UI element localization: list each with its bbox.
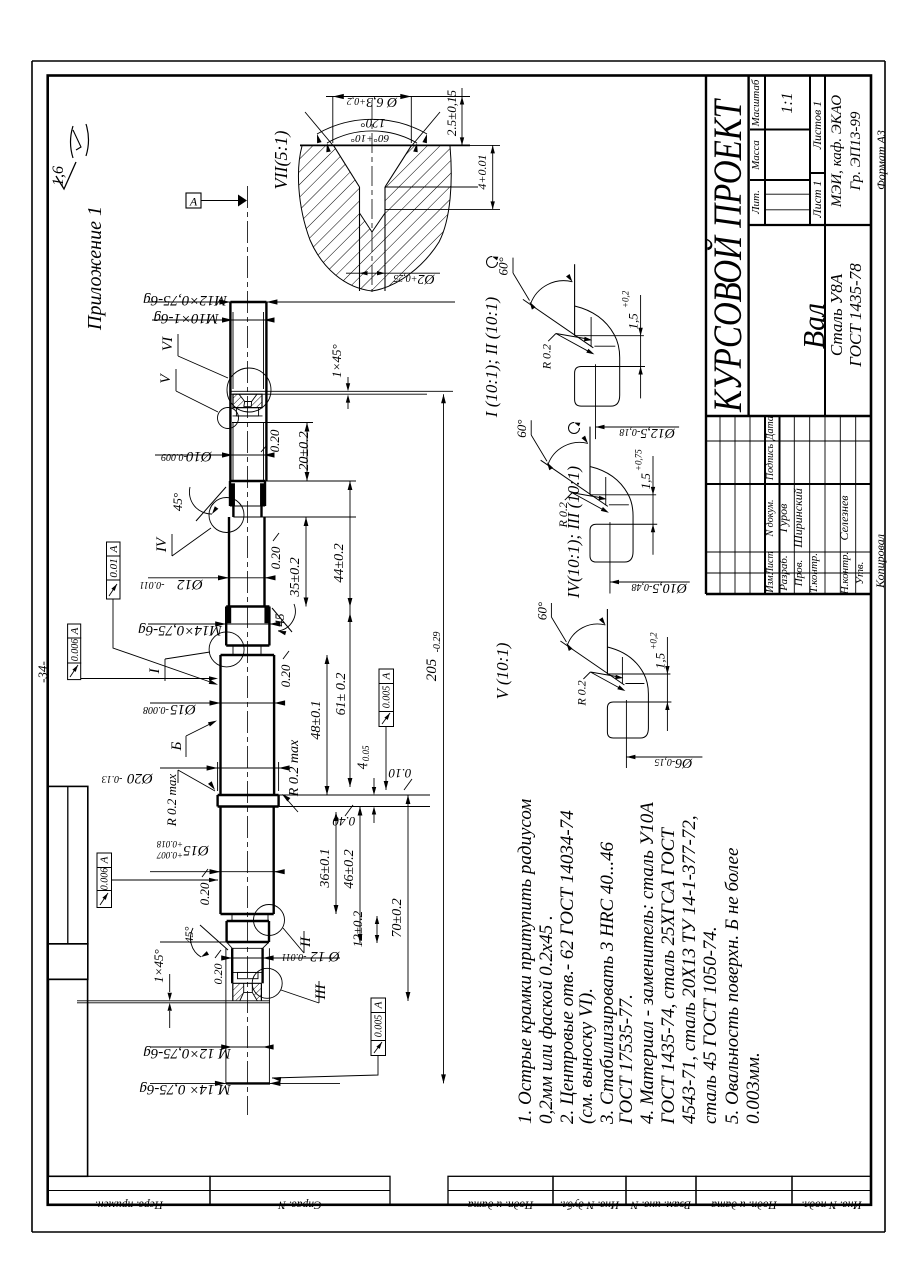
col podpis/data [706, 440, 871, 442]
svg-text:Пров.: Пров. [793, 560, 805, 587]
header row bottom (izm table) [779, 416, 781, 594]
svg-text:0.005: 0.005 [382, 686, 393, 709]
svg-text:R 0.2: R 0.2 [539, 344, 553, 370]
title block left edge [705, 76, 707, 595]
list/listov row top [809, 76, 811, 226]
60deg slant wall [560, 641, 624, 685]
angle 60+10 [327, 131, 417, 143]
open paren [71, 126, 74, 158]
groove bottom blob [575, 367, 620, 407]
surface line [606, 609, 608, 674]
inner frame [48, 76, 871, 1205]
leader II [283, 928, 304, 953]
detail circle III [252, 968, 282, 998]
svg-text:-0.011: -0.011 [281, 951, 306, 962]
tolerance frame 0.01|A [107, 542, 121, 556]
svg-text:ГОСТ 17535-77.: ГОСТ 17535-77. [616, 994, 637, 1125]
shaft section F (d15+0.018+0.007) [219, 807, 221, 915]
svg-text:60°: 60° [534, 602, 549, 620]
feature line y=422.5 extension for dim 20 [232, 422, 313, 424]
tolerance frame 0.006|A lower [97, 853, 112, 868]
shaft section A (M12x0.75 / M10x1 threaded end) [229, 302, 231, 481]
svg-text:+0,2: +0,2 [648, 632, 658, 650]
title block bottom edge (landscape left) [706, 593, 871, 595]
svg-text:ГОСТ 1435-74, сталь 25ХГСА ГОС: ГОСТ 1435-74, сталь 25ХГСА ГОСТ [658, 827, 679, 1125]
dim 70±0.2 [407, 795, 409, 1001]
svg-text:Взам. инв. N: Взам. инв. N [630, 1199, 692, 1211]
section B thread-runout groove [230, 480, 265, 482]
header row top (izm table) [764, 416, 766, 594]
dim 44±0.2 and 61±0.2 chain [349, 481, 351, 787]
svg-text:4543-71, сталь 20Х13 ТУ 14-1-3: 4543-71, сталь 20Х13 ТУ 14-1-377-72, [679, 815, 700, 1124]
svg-text:Утв.: Утв. [854, 562, 866, 585]
dim d15-0.008 [150, 702, 282, 704]
datum A on axis extension [186, 193, 201, 208]
svg-text:Приложение 1: Приложение 1 [84, 206, 106, 331]
leader I [165, 652, 210, 681]
svg-text:IV: IV [154, 536, 170, 553]
svg-text:0.20: 0.20 [278, 664, 293, 687]
svg-text:+0.018: +0.018 [156, 839, 183, 849]
collar face extension right [279, 794, 430, 796]
svg-text:0.003мм.: 0.003мм. [743, 1052, 764, 1124]
svg-text:60°: 60° [514, 420, 529, 438]
svg-text:3. Стабилизировать 3 HRC 40..: 3. Стабилизировать 3 HRC 40...46 [597, 841, 618, 1125]
svg-text:Ø2+0,25: Ø2+0,25 [393, 271, 435, 286]
svg-text:1,5: 1,5 [638, 473, 653, 490]
svg-text:Вал: Вал [796, 303, 831, 349]
leader VI [178, 334, 228, 378]
svg-text:+0.007: +0.007 [156, 850, 183, 860]
svg-text:46±0.2: 46±0.2 [342, 849, 357, 888]
feature lines y=1000.8/1002.8 with long left extensions [77, 1000, 270, 1002]
chamfer extension lines above face [305, 112, 334, 146]
funnel bottom [240, 983, 258, 1001]
svg-text:Ø10: Ø10 [186, 448, 213, 464]
45deg chamfer callout at section B [196, 487, 226, 521]
svg-text:Изм: Изм [765, 575, 776, 594]
svg-text:Листов 1: Листов 1 [810, 101, 824, 150]
svg-text:45°: 45° [170, 493, 185, 511]
svg-text:Ø12: Ø12 [177, 576, 204, 592]
svg-text:Справ. N: Справ. N [277, 1199, 322, 1211]
svg-text:-0.011: -0.011 [139, 579, 164, 590]
svg-text:III: III [313, 984, 329, 1001]
leader upper 0.005 [385, 727, 387, 791]
List/Listov divider [810, 172, 825, 174]
leader lower 0.006 [111, 879, 218, 881]
dim 1,5 [633, 523, 657, 525]
svg-text:Формат А3: Формат А3 [874, 130, 888, 190]
svg-text:-0.008: -0.008 [143, 704, 169, 715]
svg-text:Сталь У8А: Сталь У8А [827, 273, 846, 356]
svg-text:2.5±0,15: 2.5±0,15 [444, 89, 459, 136]
shaft section E (d15-0.008, datum B) [219, 655, 221, 795]
dim 20±0.2 [306, 423, 308, 482]
svg-text:Инв. N подл.: Инв. N подл. [801, 1199, 862, 1211]
svg-text:48±0.1: 48±0.1 [309, 700, 324, 739]
dim 46±0.2 [359, 807, 361, 944]
svg-text:А: А [108, 545, 120, 553]
divider landscape y=825 [824, 76, 826, 417]
divider landscape x=847 [706, 415, 871, 417]
svg-text:1,5: 1,5 [625, 313, 640, 330]
svg-text:Ø 6,3+0,2: Ø 6,3+0,2 [347, 94, 398, 109]
extension right from y=481 [265, 480, 356, 482]
tolerance frame 0.006|A upper [68, 624, 81, 638]
svg-text:М14×0,75-6g: М14×0,75-6g [138, 622, 223, 638]
svg-text:Лист 1: Лист 1 [810, 180, 824, 218]
angle 120deg [317, 119, 427, 134]
svg-text:А: А [373, 1001, 385, 1009]
small check in parens [73, 130, 81, 150]
additional columns strip along landscape left edge [48, 1176, 210, 1205]
shaft section L (M12x0.75 / M14x0.75 threaded end) [225, 948, 227, 1083]
leader of 0.01 frame [113, 599, 216, 684]
funnel [239, 394, 257, 407]
dim d15+0.018+0.007 [150, 871, 282, 873]
surface line [574, 264, 576, 336]
svg-text:А: А [381, 672, 393, 680]
svg-text:А: А [99, 856, 111, 864]
svg-text:0.10: 0.10 [388, 766, 411, 781]
dim 35±0.2 [305, 517, 307, 607]
svg-text:Подп. и дата: Подп. и дата [711, 1199, 778, 1211]
leader IV [172, 528, 211, 556]
bottom chamfer left [227, 942, 233, 948]
svg-text:I: I [147, 668, 163, 675]
upper extension 1,5 [590, 494, 656, 496]
hatch block bottom [233, 983, 262, 1001]
svg-text:45: 45 [272, 613, 287, 627]
svg-text:V (10:1): V (10:1) [493, 642, 512, 699]
svg-text:М12×0,75-6g: М12×0,75-6g [143, 292, 228, 308]
svg-text:М10×1-6g: М10×1-6g [153, 310, 220, 326]
shaft section C (d12-0.011) [228, 517, 230, 607]
right end face [230, 301, 266, 303]
dim d12-0.011 bottom [228, 957, 340, 959]
tolerance frame 0.005|A upper [379, 669, 394, 684]
svg-text:-0.009: -0.009 [161, 451, 187, 462]
collar d20-0.13 [216, 795, 218, 807]
close paren [86, 124, 89, 156]
lit subcell line 1 [765, 193, 810, 195]
svg-text:1×45°: 1×45° [151, 949, 166, 982]
upper extension 1,5 [575, 335, 644, 337]
leader III [281, 981, 319, 1003]
dim 4+0,01 [385, 186, 478, 188]
svg-text:Б: Б [169, 741, 185, 751]
dim 1,5 [648, 701, 671, 703]
svg-text:R 0.2: R 0.2 [574, 680, 588, 706]
svg-text:-0.13: -0.13 [102, 773, 123, 784]
svg-text:Ширинский: Ширинский [791, 488, 805, 548]
dim 1,5 [620, 366, 645, 368]
hatch block [233, 394, 262, 407]
detail VII centerline [371, 100, 373, 292]
svg-text:Лит.: Лит. [750, 190, 762, 215]
dim M14x0,75-6g [148, 623, 276, 625]
svg-text:45°: 45° [182, 926, 196, 943]
lit/massa/masshtab header bottom [764, 76, 766, 226]
shaft section K (lower M14 land) [225, 921, 227, 942]
svg-text:35±0.2: 35±0.2 [288, 557, 303, 597]
svg-text:61± 0.2: 61± 0.2 [334, 673, 349, 716]
svg-text:0.006: 0.006 [70, 639, 81, 662]
extension right from y=517 [262, 516, 357, 518]
lit subcell line 2 [765, 209, 810, 211]
svg-text:+0,2: +0,2 [621, 290, 631, 308]
svg-text:Селезнев: Селезнев [837, 496, 851, 541]
cone bulge [590, 467, 633, 525]
svg-text:- 0.05: - 0.05 [361, 745, 371, 766]
dim M12x0,75-6g bottom [150, 1046, 270, 1048]
leader lower 0.005 [272, 1056, 378, 1079]
bottom end face and dim M14x0,75-6g [226, 1082, 270, 1084]
svg-text:Копировал: Копировал [873, 534, 887, 589]
dim M12x0,75-6g [148, 301, 455, 303]
svg-text:Гр. ЭП13-99: Гр. ЭП13-99 [848, 111, 864, 191]
detail VII outline blob [298, 146, 451, 291]
svg-text:-34-: -34- [35, 661, 50, 683]
svg-text:Н.контр.: Н.контр. [839, 552, 851, 596]
svg-text:-0.29: -0.29 [432, 632, 443, 653]
svg-text:2. Центровые отв.- 62 ГОСТ 140: 2. Центровые отв.- 62 ГОСТ 14034-74 [557, 810, 578, 1124]
svg-text:МЭИ, каф. ЭКАО: МЭИ, каф. ЭКАО [829, 95, 845, 208]
svg-text:60°: 60° [496, 257, 511, 275]
diameter dim [609, 522, 611, 593]
step under center hole [236, 408, 258, 416]
45 chamfer callout right of D [272, 608, 292, 632]
svg-text:Инв. N дубл.: Инв. N дубл. [560, 1199, 620, 1211]
leader V [176, 369, 218, 412]
detail VII face line [300, 144, 470, 146]
svg-text:4. Материал - заменитель: стал: 4. Материал - заменитель: сталь У10А [637, 802, 658, 1124]
svg-text:Лист: Лист [765, 551, 776, 575]
svg-text:IV(10:1); III (10:1): IV(10:1); III (10:1) [564, 466, 583, 599]
surface line [589, 427, 591, 495]
feature line y=394.2 [231, 393, 427, 395]
dim 4-0.05 [373, 778, 375, 788]
col ndokum/podpis [706, 483, 871, 485]
svg-text:1. Острые крамки притупить рад: 1. Острые крамки притупить радиусом [515, 799, 536, 1124]
roughness check mark [56, 162, 76, 189]
svg-text:Ø15: Ø15 [183, 842, 210, 858]
svg-text:Ø12,5-0,18: Ø12,5-0,18 [619, 425, 675, 440]
dim d20-0.13 [217, 762, 219, 791]
outer border bottom [32, 1231, 885, 1233]
svg-text:1,6: 1,6 [50, 166, 67, 186]
shaft centerline [247, 186, 249, 1115]
svg-text:Масса: Масса [750, 140, 762, 171]
detail circle V [218, 408, 239, 429]
svg-text:Перв. примен.: Перв. примен. [95, 1199, 164, 1211]
svg-text:Ø6-0,15: Ø6-0,15 [654, 755, 693, 770]
svg-text:0.01: 0.01 [108, 558, 120, 577]
divider landscape x=1038 (Val | Lit column) [749, 224, 871, 226]
leader upper 0.006 [81, 678, 214, 680]
svg-text:12±0.2: 12±0.2 [350, 910, 365, 947]
Lit/Massa divider [750, 179, 810, 181]
svg-text:0.20: 0.20 [197, 882, 212, 905]
white funnel of detail VII [334, 145, 412, 232]
svg-text:+0,75: +0,75 [633, 449, 643, 471]
extension left from y=942 [160, 941, 230, 943]
svg-text:КУРСОВОЙ ПРОЕКТ: КУРСОВОЙ ПРОЕКТ [705, 98, 750, 413]
bottom chamfer right [263, 942, 269, 948]
svg-text:70±0.2: 70±0.2 [390, 898, 405, 937]
45deg chamfer callout bottom [200, 925, 228, 950]
detail circle I [209, 632, 244, 667]
dim 12±0.2 [376, 916, 378, 943]
dim d12-0.011 [148, 577, 272, 579]
groove bottom blob [607, 702, 648, 738]
svg-text:1,5: 1,5 [652, 652, 667, 669]
blank stamp boxes along landscape top edge [48, 786, 88, 943]
svg-text:Дата: Дата [765, 416, 776, 441]
dim M10x1-6g [152, 319, 272, 321]
svg-text:Подп. и дата: Подп. и дата [467, 1199, 534, 1211]
svg-text:0.20: 0.20 [211, 964, 225, 985]
col izm/list [706, 572, 871, 574]
dim 36±0.1 [220, 806, 222, 810]
svg-text:Ø20: Ø20 [127, 770, 154, 786]
col list/ndokum [706, 551, 871, 553]
dim 1x45 (right end chamfer) [347, 377, 349, 386]
feature line y=391.3 with extension [231, 390, 453, 392]
svg-text:120°: 120° [361, 116, 386, 131]
svg-text:II: II [298, 936, 314, 948]
svg-text:ГОСТ 1435-78: ГОСТ 1435-78 [846, 263, 865, 368]
svg-text:Ø 12: Ø 12 [310, 948, 341, 964]
svg-text:I (10:1); II (10:1): I (10:1); II (10:1) [482, 296, 501, 418]
groove bottom blob [590, 524, 633, 562]
svg-text:Подпись: Подпись [765, 443, 776, 481]
dim d2+0,25 [359, 273, 361, 280]
svg-text:сталь 45 ГОСТ 1050-74.: сталь 45 ГОСТ 1050-74. [700, 926, 721, 1124]
outer border left [31, 61, 33, 1232]
dim diam10-0.009 [155, 454, 272, 456]
svg-text:Ø10,5-0,48: Ø10,5-0,48 [632, 580, 688, 595]
detail circle VI (center hole) [227, 368, 271, 412]
svg-text:20±0.2: 20±0.2 [297, 431, 312, 470]
Massa/Masshtab divider [750, 129, 810, 131]
cone bulge [575, 306, 620, 367]
tolerance frame 0.005|A lower [371, 998, 386, 1013]
svg-text:0,2мм или фаской 0.2х45 .: 0,2мм или фаской 0.2х45 . [536, 915, 557, 1124]
svg-text:205: 205 [424, 658, 440, 681]
svg-text:R 0.2 max: R 0.2 max [164, 774, 179, 828]
dim 48±0.1 [326, 655, 328, 795]
svg-text:А: А [189, 195, 198, 209]
cone bulge [607, 647, 648, 702]
outer border top [32, 60, 885, 62]
dim 205-0.29 [443, 394, 445, 1083]
svg-text:(см. выноску VI).: (см. выноску VI). [576, 988, 597, 1124]
svg-text:Гуров: Гуров [776, 504, 790, 534]
detail circle II [254, 905, 285, 936]
svg-text:R 0.2 max: R 0.2 max [287, 739, 302, 797]
step between F and K [231, 914, 233, 921]
dim 2,5±0,15 [461, 88, 463, 145]
detail circle IV [209, 498, 244, 533]
60deg slant wall [523, 299, 593, 347]
svg-text:Масштаб: Масштаб [750, 79, 762, 127]
svg-text:60°+10°: 60°+10° [350, 132, 389, 144]
step between B and C [232, 506, 234, 517]
step between D and E [232, 646, 234, 656]
shaft section D (M14x0.75-6g) [226, 605, 269, 607]
designation row bottom [747, 76, 749, 417]
60deg slant wall [541, 460, 608, 506]
svg-text:4+0.01: 4+0.01 [475, 154, 489, 189]
svg-text:VI: VI [160, 336, 176, 351]
svg-text:А: А [69, 627, 81, 635]
svg-text:36±0.1: 36±0.1 [318, 848, 333, 888]
svg-text:1:1: 1:1 [779, 92, 796, 113]
dim d6,3+0,2 [332, 97, 334, 144]
diameter dim [595, 364, 597, 439]
svg-text:Разраб.: Разраб. [778, 555, 790, 591]
svg-text:44±0.2: 44±0.2 [332, 543, 347, 582]
upper extension 1,5 [607, 673, 670, 675]
svg-text:1×45°: 1×45° [329, 344, 344, 377]
svg-text:VII(5:1): VII(5:1) [271, 131, 292, 190]
svg-text:0.20: 0.20 [268, 546, 283, 569]
svg-text:0.006: 0.006 [100, 868, 111, 891]
svg-text:5. Овальность поверхн. Б не бо: 5. Овальность поверхн. Б не более [722, 848, 743, 1124]
diameter dim [625, 700, 627, 768]
svg-text:0.20: 0.20 [267, 429, 282, 452]
svg-text:Ø15: Ø15 [170, 701, 197, 717]
dim 1x45 bottom [169, 974, 171, 992]
svg-text:Т.контр.: Т.контр. [808, 553, 820, 593]
svg-text:N докум.: N докум. [765, 500, 776, 538]
drill point V [360, 213, 386, 232]
outer border right [884, 61, 886, 1232]
svg-text:М 14× 0,75-6g: М 14× 0,75-6g [139, 1081, 232, 1097]
step above bottom center hole [233, 971, 262, 973]
svg-text:М 12×0,75-6g: М 12×0,75-6g [143, 1045, 232, 1061]
svg-text:0.005: 0.005 [374, 1015, 385, 1038]
